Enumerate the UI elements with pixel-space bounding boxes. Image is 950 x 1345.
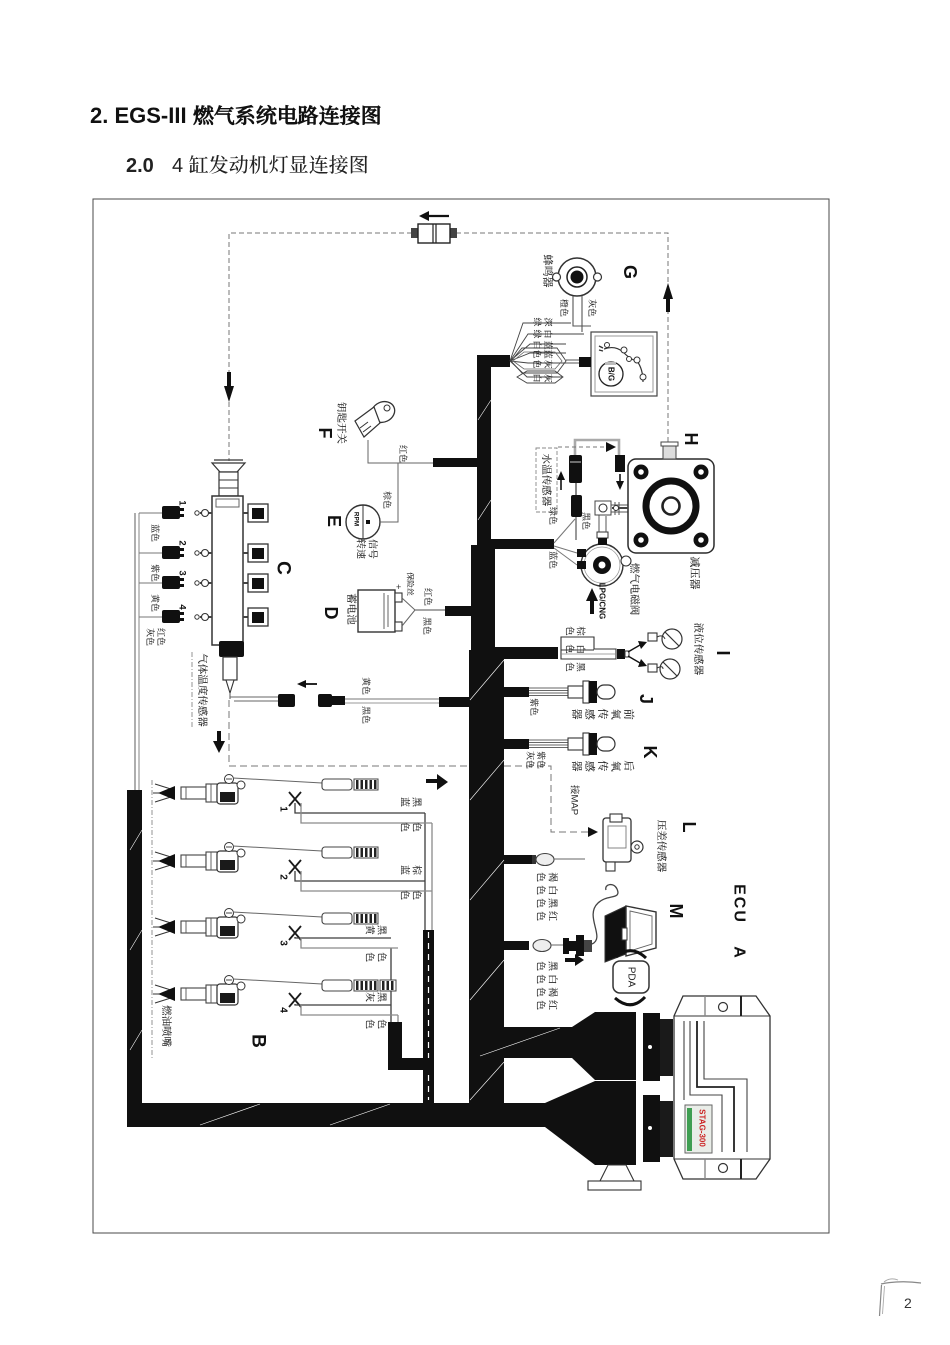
svg-text:灰色: 灰色 [587, 299, 597, 317]
arrow up on dashed wire [666, 297, 670, 312]
dashed wire gas temp to trunk [229, 700, 588, 832]
diagnostic plug [563, 938, 569, 954]
branch to diagnostic connector [504, 941, 529, 950]
injector 2 crossover X [289, 860, 301, 874]
diagnostic wires connector [533, 940, 551, 952]
svg-text:灰: 灰 [543, 373, 553, 382]
arrow up small [560, 478, 562, 490]
fuel injector 3 spray arrow [155, 918, 174, 924]
svg-text:红色: 红色 [398, 445, 408, 463]
buzzer wire gray [581, 296, 583, 332]
reducer diaphragm ring [646, 481, 696, 531]
svg-text:红色: 红色 [423, 588, 433, 606]
injector rows 1-2 drop bar [423, 930, 434, 1105]
injector 2 wires to drop [295, 871, 425, 881]
pipe valve to reducer [599, 512, 606, 532]
svg-text:燃油喷嘴: 燃油喷嘴 [160, 1005, 172, 1047]
svg-text:黑色: 黑色 [422, 617, 432, 635]
svg-text:M: M [666, 904, 686, 919]
svg-text:蓝色: 蓝色 [548, 551, 558, 569]
svg-text:蓝: 蓝 [399, 797, 411, 807]
ECU A body [674, 996, 770, 1179]
rpm gauge E [346, 505, 380, 539]
ECU harness connector block 2 [595, 1081, 636, 1165]
svg-text:色: 色 [564, 643, 575, 654]
gas solenoid valve [581, 544, 623, 586]
diagram border frame [93, 199, 829, 1233]
svg-text:色: 色 [532, 348, 542, 358]
svg-text:色: 色 [364, 952, 376, 962]
svg-text:白: 白 [543, 329, 553, 338]
PDA [613, 961, 649, 993]
svg-text:C: C [273, 561, 294, 575]
svg-text:色: 色 [535, 987, 547, 997]
svg-text:黑: 黑 [376, 992, 388, 1002]
arrow to PDA [565, 958, 575, 962]
switch B/G button [599, 362, 623, 386]
O2 sensor body [568, 738, 583, 750]
harness bottom bar [127, 1103, 545, 1127]
svg-text:转速: 转速 [355, 539, 367, 560]
reducer nipple [663, 445, 676, 459]
svg-text:器: 器 [570, 761, 582, 772]
key switch F [368, 398, 398, 426]
svg-text:黑: 黑 [547, 898, 559, 908]
svg-text:褐: 褐 [547, 872, 559, 882]
rail connector plugs numbered [139, 512, 162, 514]
ECU harness connector block 1 [595, 1012, 636, 1080]
svg-text:色: 色 [399, 890, 411, 900]
battery D [358, 590, 395, 632]
level sensor actuator [561, 637, 616, 659]
arrow down big [217, 731, 221, 742]
rail bell top [212, 463, 245, 472]
injector 4 wires to drop [295, 1004, 391, 1005]
coolant sensor body [571, 495, 582, 517]
rail neck [219, 472, 238, 496]
rail feed wires pair [134, 513, 136, 791]
injector 3 wires to drop [295, 937, 391, 938]
bundle outline [511, 348, 566, 373]
svg-text:信号: 信号 [367, 539, 379, 559]
svg-text:感: 感 [583, 761, 596, 772]
svg-text:压差传感器: 压差传感器 [655, 820, 667, 873]
arrow right mid [426, 779, 437, 783]
fuel injector 4 body [181, 988, 206, 1000]
svg-text:G: G [620, 265, 640, 279]
svg-text:+: + [396, 582, 401, 592]
svg-text:棕: 棕 [575, 626, 587, 636]
float switch lower [648, 664, 657, 672]
branch to coolant sensor and valve [491, 539, 554, 549]
ECU side connector 1 [643, 1013, 660, 1081]
svg-text:色: 色 [376, 1019, 388, 1029]
dashed power feed wire left [229, 233, 412, 461]
svg-text:黑: 黑 [575, 662, 586, 672]
injector rows 3-4 drop wires [390, 948, 392, 1023]
svg-text:前: 前 [622, 709, 635, 721]
svg-text:深: 深 [543, 317, 553, 326]
svg-text:紫色: 紫色 [150, 564, 160, 582]
svg-text:LPG/CNG: LPG/CNG [598, 583, 607, 619]
fuel injector 2 body [181, 855, 206, 867]
connector stub at panel [579, 357, 591, 367]
svg-text:蓝: 蓝 [543, 349, 553, 358]
injector 2 wire to connector [233, 846, 322, 851]
harness trunk middle [471, 545, 495, 660]
svg-text:蜂鸣器: 蜂鸣器 [541, 255, 554, 288]
arrow down on dashed wire [227, 372, 231, 387]
svg-text:白: 白 [547, 974, 559, 984]
injector 4 inline connector [322, 980, 352, 991]
label gas temp sensor [191, 652, 193, 728]
arrow left disconnect [306, 683, 317, 685]
arrow up LPG [590, 600, 594, 614]
svg-text:PDA: PDA [626, 967, 637, 988]
page corner flag [880, 1285, 882, 1316]
branch to gas temp sensor wire [439, 697, 478, 707]
svg-text:红: 红 [547, 1000, 559, 1010]
svg-text:紫色: 紫色 [536, 751, 546, 769]
branch to rear O2 sensor [504, 739, 529, 749]
svg-text:色: 色 [535, 885, 547, 895]
svg-text:B/G: B/G [607, 367, 616, 381]
svg-text:色: 色 [532, 358, 542, 368]
svg-text:减压器: 减压器 [688, 557, 701, 590]
harness texture streaks [470, 660, 504, 700]
branch to MAP sensor wires [504, 855, 532, 864]
svg-text:色: 色 [364, 1019, 376, 1029]
svg-text:1: 1 [177, 500, 188, 506]
svg-text:绿色: 绿色 [548, 507, 558, 525]
key switch wire [368, 440, 433, 463]
svg-text:色: 色 [535, 898, 547, 908]
branch to battery [445, 606, 477, 616]
ECU label sticker [685, 1105, 712, 1153]
svg-text:棕: 棕 [411, 865, 423, 875]
coolant sensor link wire [575, 440, 619, 455]
O2 sensor wires [529, 687, 568, 689]
rail injector coils right [243, 512, 248, 514]
svg-text:橙色: 橙色 [559, 298, 569, 317]
injector 1 wires to drop [295, 803, 425, 813]
svg-text:B: B [248, 1034, 269, 1048]
svg-text:K: K [640, 746, 660, 759]
ECU bolt holes [719, 1003, 728, 1012]
fuel injector 3 body [181, 921, 206, 933]
wire fan bundle [510, 323, 571, 361]
svg-text:灰: 灰 [364, 992, 376, 1002]
gas temp sensor wire [230, 696, 278, 698]
svg-text:色: 色 [399, 822, 411, 832]
reducer bolts [634, 465, 649, 480]
float switch upper [648, 633, 657, 641]
svg-text:J: J [636, 694, 656, 704]
svg-text:色: 色 [564, 625, 575, 636]
svg-text:保险丝: 保险丝 [406, 572, 415, 596]
ECU bracket foot [600, 1165, 634, 1181]
injector 3 wire to connector [233, 912, 322, 917]
svg-text:褐: 褐 [547, 987, 559, 997]
svg-text:绿: 绿 [532, 317, 542, 326]
svg-text:E: E [324, 515, 344, 527]
svg-text:后: 后 [622, 761, 635, 772]
switch LED arc [604, 348, 643, 382]
svg-text:水温传感器: 水温传感器 [540, 454, 553, 507]
svg-text:STAG-300: STAG-300 [698, 1109, 707, 1147]
harness trunk bottom elbow [469, 1027, 572, 1058]
svg-text:氧: 氧 [609, 709, 622, 721]
changeover switch panel [591, 332, 657, 396]
MAP wires connector [532, 855, 536, 864]
svg-text:2: 2 [278, 874, 289, 880]
svg-text:传: 传 [596, 761, 609, 772]
harness trunk top elbow [477, 355, 510, 367]
svg-text:氧: 氧 [609, 761, 622, 773]
svg-text:气体温度传感器: 气体温度传感器 [196, 653, 209, 727]
battery wires [402, 598, 415, 610]
dashed pointer to relay [558, 446, 606, 448]
svg-text:蓄电池: 蓄电池 [345, 593, 358, 625]
svg-text:色: 色 [411, 890, 423, 900]
svg-text:4: 4 [278, 1007, 289, 1013]
svg-text:黑色: 黑色 [581, 512, 591, 530]
laptop M screen [626, 906, 656, 956]
laptop M keyboard [605, 906, 626, 962]
svg-text:红: 红 [547, 911, 559, 921]
harness left bar [127, 790, 142, 1110]
rail ports left [200, 512, 212, 514]
svg-text:绿: 绿 [532, 329, 542, 338]
svg-text:白: 白 [547, 885, 559, 895]
svg-text:I: I [713, 650, 733, 655]
MAP sensor L body [603, 818, 631, 862]
branch to level sensor [495, 647, 558, 659]
O2 sensor body [568, 686, 583, 698]
coolant sensor plug [569, 455, 582, 483]
svg-text:色: 色 [376, 952, 388, 962]
injector 3 crossover X [289, 926, 301, 940]
harness trapezoid to ECU connector 1 [572, 1012, 595, 1080]
PDA parentheses [616, 951, 646, 958]
svg-text:灰色: 灰色 [525, 751, 535, 769]
svg-text:3: 3 [278, 940, 289, 946]
svg-text:燃气电磁阀: 燃气电磁阀 [628, 563, 641, 616]
svg-text:棕色: 棕色 [382, 491, 392, 509]
fuel injector 1 body [181, 787, 206, 799]
arrow above fuse [429, 215, 449, 217]
ECU traces [690, 1021, 722, 1152]
svg-text:钥匙开关: 钥匙开关 [335, 402, 347, 444]
svg-text:色: 色 [564, 661, 575, 672]
svg-text:RPM: RPM [353, 512, 360, 526]
svg-text:红色: 红色 [156, 628, 166, 646]
svg-text:黑: 黑 [376, 925, 388, 935]
svg-text:接MAP: 接MAP [569, 784, 581, 815]
svg-text:白: 白 [575, 644, 586, 654]
injector 3 inline connector [322, 913, 352, 924]
svg-text:A: A [731, 946, 748, 958]
gas temp sensor body [223, 657, 237, 680]
svg-text:2. EGS-III 燃气系统电路连接图: 2. EGS-III 燃气系统电路连接图 [90, 103, 382, 128]
injector 1 wire to connector [233, 778, 322, 783]
svg-text:色: 色 [411, 822, 423, 832]
injector rows 3-4 elbow to rows 1-2 bar [388, 1058, 433, 1070]
svg-text:L: L [679, 822, 699, 833]
branch to key switch wire [433, 458, 477, 467]
svg-text:蓝色: 蓝色 [150, 524, 160, 542]
injector 1 crossover X [289, 792, 301, 806]
wires to solenoid pads [554, 519, 575, 543]
svg-text:F: F [315, 428, 335, 439]
svg-text:黄色: 黄色 [150, 594, 160, 612]
rail body C [212, 496, 243, 645]
rpm wire [380, 463, 398, 522]
svg-text:灰色: 灰色 [145, 628, 155, 646]
svg-text:器: 器 [570, 709, 582, 720]
harness trunk lower [469, 650, 504, 1127]
svg-text:液位传感器: 液位传感器 [692, 622, 704, 676]
fuel injector 1 spray arrow [155, 784, 174, 790]
svg-text:白: 白 [532, 373, 542, 382]
branch to front O2 sensor [504, 687, 529, 697]
svg-text:黄: 黄 [364, 925, 376, 935]
injector rows 1-2 drop wires [424, 813, 426, 932]
injector 4 crossover X [289, 993, 301, 1007]
svg-text:白: 白 [532, 340, 542, 349]
svg-text:4: 4 [177, 604, 188, 610]
svg-text:色: 色 [535, 1000, 547, 1010]
wire bundle to panel [566, 359, 579, 361]
harness trapezoid to ECU connector 2 [545, 1081, 595, 1165]
label coolant temp sensor [536, 448, 557, 512]
svg-text:黑: 黑 [547, 961, 559, 971]
svg-text:灰: 灰 [543, 359, 553, 368]
mini relay [615, 455, 625, 472]
dashed power feed wire right [456, 233, 668, 443]
svg-text:色: 色 [535, 872, 547, 882]
reducer left port [612, 507, 628, 509]
svg-text:紫色: 紫色 [529, 698, 539, 716]
harness trunk upper [477, 355, 491, 555]
svg-text:2: 2 [904, 1295, 912, 1311]
injector rows 3-4 drop bar [388, 1022, 402, 1062]
svg-text:3: 3 [177, 570, 188, 575]
svg-text:黑色: 黑色 [361, 706, 371, 724]
injector 1 inline connector [322, 779, 352, 790]
fuel injector 2 spray arrow [155, 852, 174, 858]
arrow down small [619, 474, 621, 481]
buzzer wire orange [573, 296, 591, 326]
laptop hinge [622, 928, 627, 940]
svg-text:色: 色 [535, 974, 547, 984]
level sensor arrows [628, 645, 640, 652]
fuel injector 4 spray arrow [155, 985, 174, 991]
svg-text:传: 传 [596, 709, 609, 720]
injector 2 inline connector [322, 847, 352, 858]
gas temp sensor plug [219, 641, 244, 657]
diagnostic cable curl [592, 885, 618, 944]
injector group dashed guide [151, 780, 153, 1058]
svg-text:黑: 黑 [411, 797, 423, 807]
reducer H body [628, 459, 714, 553]
svg-text:黄色: 黄色 [361, 677, 371, 695]
svg-text:H: H [681, 433, 701, 446]
svg-text:色: 色 [535, 961, 547, 971]
svg-text:色: 色 [535, 911, 547, 921]
svg-text:蓝: 蓝 [543, 340, 553, 349]
injector 4 wire to connector [233, 979, 322, 984]
solenoid left pads [577, 549, 586, 557]
svg-text:感: 感 [583, 709, 596, 720]
inline connector left half [278, 694, 295, 707]
ECU side connector 2 [643, 1095, 660, 1162]
arrow into MAP sensor [588, 827, 598, 837]
svg-text:ECU: ECU [731, 884, 748, 924]
inline connector right half [318, 694, 332, 707]
svg-text:2.04 缸发动机灯显连接图: 2.04 缸发动机灯显连接图 [126, 154, 369, 177]
O2 sensor wires [529, 739, 568, 741]
buzzer G [558, 258, 596, 296]
wire to trunk [345, 698, 439, 700]
fuse [411, 228, 419, 238]
svg-text:2: 2 [177, 540, 188, 545]
svg-text:1: 1 [278, 806, 289, 812]
svg-text:D: D [321, 607, 341, 620]
svg-text:蓝: 蓝 [399, 865, 411, 875]
